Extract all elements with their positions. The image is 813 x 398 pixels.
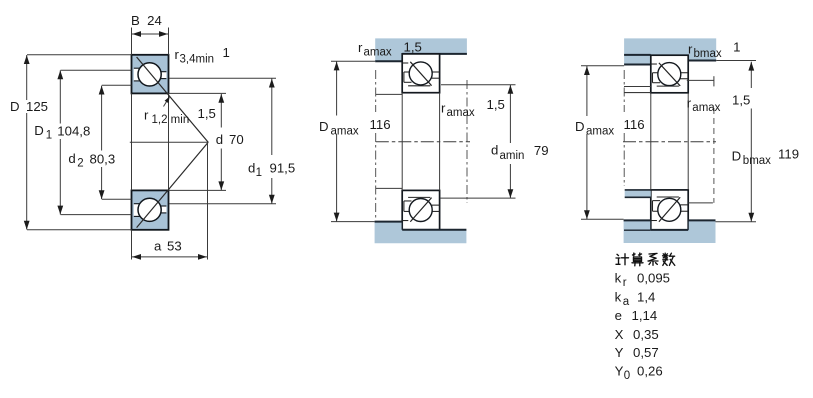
svg-text:amax: amax [692, 102, 720, 114]
svg-text:0,35: 0,35 [633, 327, 659, 342]
centre axis line (middle view) [376, 141, 470, 143]
svg-text:1: 1 [733, 40, 740, 55]
svg-text:0,26: 0,26 [637, 364, 663, 379]
coefficient Y0 0,26 [615, 364, 663, 382]
svg-text:amax: amax [586, 126, 614, 138]
svg-text:1,5: 1,5 [487, 97, 505, 112]
housing-side spacer ring abutting outer ring (right view) [624, 55, 651, 65]
centre axis line (left view) [130, 141, 208, 143]
shaft seat edge lines left of bearing (middle view) [376, 94, 402, 188]
break line right, shaft/housing cut (middle view) [466, 80, 468, 203]
svg-text:r: r [358, 40, 363, 55]
svg-text:D: D [34, 123, 44, 138]
label r amax 1,5 right (shaft fillet radius) [441, 97, 505, 119]
svg-text:1,14: 1,14 [632, 308, 658, 323]
svg-text:119: 119 [778, 147, 799, 162]
label r 1,2 min with leader arrow (inner ring corner radius) [144, 96, 216, 126]
bearing cross-section top (middle view) [402, 54, 439, 93]
coefficient X 0,35 [615, 327, 659, 342]
coefficient k a 1,4 [615, 290, 656, 308]
dimension d amin 79 (middle view) [440, 85, 549, 198]
svg-text:1,5: 1,5 [404, 40, 422, 55]
shaft cross-section with shoulders (right view) [624, 220, 716, 243]
svg-text:116: 116 [624, 117, 645, 132]
dimension D1 104,8 (outer race shoulder diameter) [34, 70, 131, 214]
svg-text:d: d [216, 132, 223, 147]
dimension a 53 (pressure centre distance) [132, 142, 208, 259]
svg-text:1: 1 [223, 45, 230, 60]
label r 3,4min 1 (outer ring corner radius) [175, 45, 230, 66]
svg-text:70: 70 [229, 132, 244, 147]
svg-text:104,8: 104,8 [57, 124, 90, 139]
housing cross-section with shoulder (middle view) [375, 38, 467, 61]
bearing outer/inner ring cross-section, top (left view) [132, 55, 169, 94]
svg-text:d: d [68, 151, 75, 166]
svg-text:bmax: bmax [743, 155, 771, 167]
svg-text:r: r [688, 42, 693, 57]
dimension D 125 (outer diameter) [10, 55, 132, 230]
label r amax 1,5 top left (housing fillet radius) [358, 40, 422, 59]
dimension d1 91,5 (inner ring shoulder diameter) [169, 78, 295, 204]
svg-text:r: r [687, 96, 692, 111]
svg-text:amax: amax [364, 47, 392, 59]
svg-text:53: 53 [167, 239, 182, 254]
bearing cross-section top (right view) [651, 55, 688, 93]
coefficient Y 0,57 [615, 345, 659, 360]
bearing side face lines (right view) [651, 93, 688, 190]
dimension D bmax 119 (right view) [716, 61, 800, 222]
svg-text:k: k [615, 290, 622, 305]
coefficient e 1,14 [615, 308, 658, 323]
dimension d2 80,3 (inner race shoulder diameter) [68, 85, 131, 199]
svg-text:D: D [732, 149, 742, 164]
bearing side face lines (middle view) [402, 93, 439, 191]
svg-text:125: 125 [26, 99, 48, 114]
svg-text:amin: amin [500, 150, 525, 162]
svg-text:91,5: 91,5 [270, 161, 296, 176]
svg-text:3,4min: 3,4min [180, 54, 215, 66]
shaft-side spacer edge lines, upper half (right view) [624, 87, 651, 93]
heading: calculation factors (Chinese characters) [616, 253, 675, 266]
svg-text:r: r [623, 277, 627, 289]
contact angle line through top ball to apex [137, 57, 209, 142]
svg-text:1: 1 [256, 167, 262, 179]
svg-text:1,2 min: 1,2 min [152, 114, 190, 126]
svg-text:B 24: B 24 [131, 13, 162, 28]
svg-text:1,4: 1,4 [637, 290, 655, 305]
label r amax 1,5 with leader lines (right view) [687, 76, 751, 203]
svg-text:X: X [615, 327, 624, 342]
shaft cross-section with shoulder (middle view) [375, 222, 467, 244]
svg-text:Y: Y [615, 364, 624, 379]
housing cross-section (right view) [624, 38, 716, 60]
contact angle line through bottom ball to apex [137, 142, 209, 227]
svg-text:2: 2 [77, 158, 83, 170]
svg-text:a: a [623, 296, 630, 308]
svg-text:amax: amax [331, 126, 359, 138]
svg-text:0,095: 0,095 [637, 271, 670, 286]
dimension B 24 (width) [131, 13, 169, 55]
svg-text:D: D [319, 119, 329, 134]
svg-text:0,57: 0,57 [633, 345, 659, 360]
svg-text:d: d [248, 161, 255, 176]
svg-text:k: k [615, 271, 622, 286]
svg-text:amax: amax [447, 107, 475, 119]
svg-text:r: r [441, 101, 446, 116]
bearing cross-section bottom (right view) [651, 190, 688, 230]
svg-text:e: e [615, 308, 622, 323]
svg-text:116: 116 [370, 117, 391, 132]
dimension d 70 (bore diameter) [168, 93, 244, 190]
centre axis line (right view) [623, 141, 716, 143]
svg-text:1: 1 [46, 130, 52, 142]
bearing cross-section bottom (middle view) [402, 190, 439, 229]
svg-text:a: a [154, 239, 162, 254]
dimension D amax 116 (right view) [575, 66, 645, 220]
svg-text:bmax: bmax [694, 48, 722, 60]
svg-text:r: r [144, 108, 149, 123]
shaft-side spacer ring abutting inner ring (right view) [625, 190, 651, 197]
label r bmax 1 (spacer corner radius) [688, 40, 740, 61]
svg-text:Y: Y [615, 345, 624, 360]
svg-text:79: 79 [534, 143, 549, 158]
coefficient k r 0,095 [615, 271, 670, 289]
svg-text:0: 0 [624, 370, 630, 382]
bearing outer/inner ring cross-section, bottom (left view) [132, 190, 169, 229]
svg-text:1,5: 1,5 [732, 93, 750, 108]
svg-text:80,3: 80,3 [90, 152, 116, 167]
svg-text:D: D [575, 119, 585, 134]
svg-text:D: D [10, 99, 20, 114]
bore edge lines between ring sections (left view) [132, 93, 169, 190]
svg-text:d: d [491, 142, 498, 157]
break line at abutment face left (middle view) [375, 70, 377, 219]
svg-text:1,5: 1,5 [198, 106, 216, 121]
break line left (right view) [623, 70, 625, 186]
dimension D amax 116 (middle view) [319, 61, 391, 221]
